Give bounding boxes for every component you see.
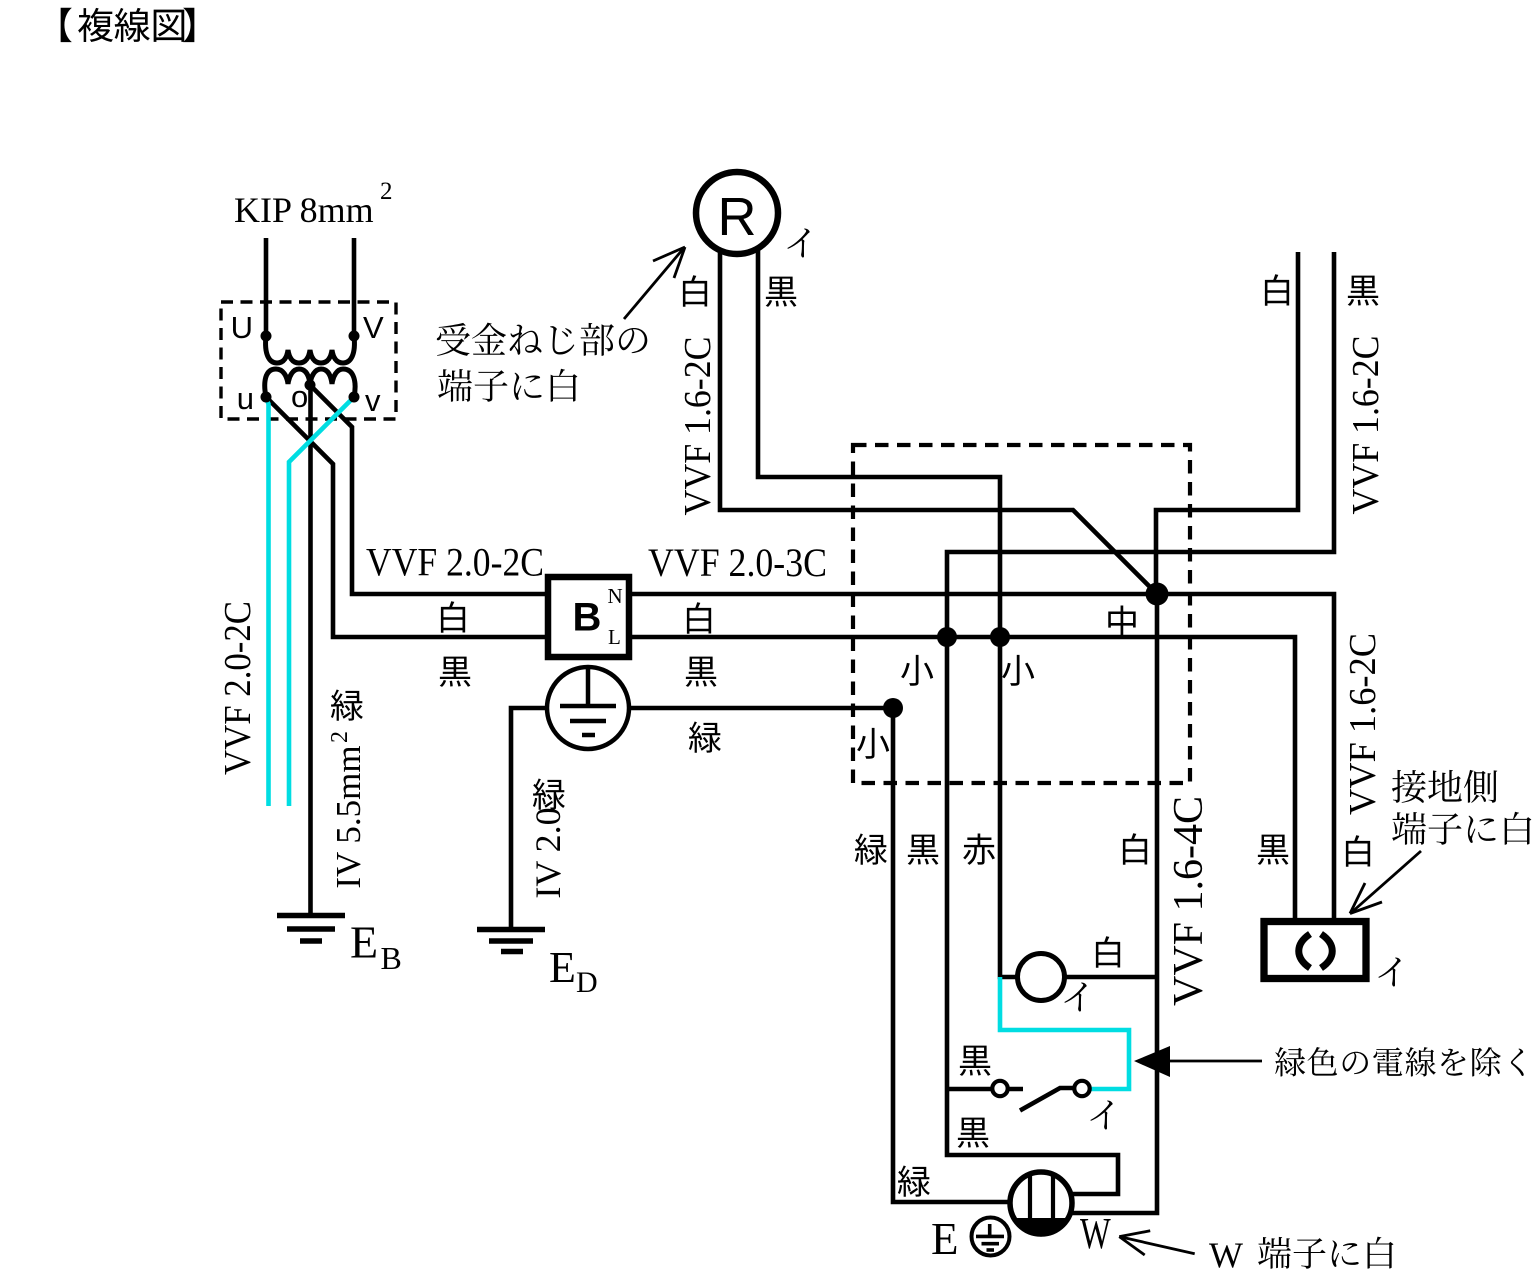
color label 緑 (green bus)	[689, 721, 721, 752]
lamp R circle	[696, 172, 778, 254]
svg-text:D: D	[576, 966, 598, 999]
svg-text:VVF 2.0-2C: VVF 2.0-2C	[217, 601, 259, 775]
svg-text:E: E	[549, 943, 576, 992]
wire white from o (diagonal) down to breaker N bus	[310, 385, 548, 594]
transformer primary terminal U	[261, 331, 272, 342]
wire black bus from B to rosette drop	[629, 637, 1295, 919]
wire white from lamp R to junction (中)	[720, 250, 1157, 594]
svg-text:V: V	[363, 310, 384, 345]
color label 緑 (receptacle)	[898, 1165, 930, 1196]
junction box (dashed)	[853, 445, 1190, 783]
svg-text:IV 2.0: IV 2.0	[528, 807, 568, 898]
color label 白 (right of B)	[687, 602, 711, 633]
ceiling rosette イ box	[1264, 922, 1366, 979]
junction node 中 (neutral)	[1146, 583, 1169, 606]
transformer secondary center tap o	[305, 380, 316, 391]
color label 緑 (below earth circle)	[533, 778, 565, 809]
junction node 小 on green wire	[883, 698, 903, 718]
color label 白 (top right)	[1265, 274, 1289, 305]
color label 白 (drop)	[1123, 833, 1147, 864]
node label 小 (right)	[1002, 655, 1034, 686]
svg-text:2: 2	[327, 731, 353, 743]
note arrow (solid) pointing at cyan wire	[1134, 1046, 1170, 1077]
color label 白 (lamp R)	[683, 275, 707, 306]
transformer secondary terminal u	[261, 392, 272, 403]
lamp イ circle	[1018, 954, 1065, 1001]
color label 黒 (right of B)	[686, 657, 717, 687]
circuit label イ (lamp R)	[787, 228, 809, 257]
svg-text:E: E	[350, 917, 378, 968]
wire black from o straight down to ground EB	[308, 385, 313, 916]
svg-text:VVF 1.6-2C: VVF 1.6-2C	[1345, 336, 1387, 515]
color label 緑 (drop)	[855, 833, 887, 864]
svg-text:2: 2	[380, 178, 393, 205]
title 複線図	[78, 8, 113, 42]
ceiling rosette () symbol	[1299, 934, 1310, 968]
node label 小 (green)	[857, 728, 889, 759]
wire black from top right cable to switch feeder	[947, 252, 1334, 1194]
note 接地側端子に白	[1392, 770, 1426, 803]
svg-text:N: N	[608, 584, 623, 608]
svg-text:VVF 1.6-4C: VVF 1.6-4C	[1166, 796, 1212, 1006]
note arrow to rosette white terminal	[1352, 851, 1421, 912]
wire cyan switched leg from lamp イ to switch	[1000, 977, 1129, 1089]
color label 赤 (drop)	[963, 833, 995, 864]
node label 中	[1108, 605, 1135, 636]
junction node 小 on black bus (switch feeder)	[937, 627, 957, 647]
wire KIP primary right to V	[352, 238, 357, 336]
svg-text:L: L	[608, 625, 621, 649]
color label 緑 (IV5.5 earth wire)	[331, 689, 363, 720]
svg-text:VVF 2.0-3C: VVF 2.0-3C	[648, 540, 827, 585]
svg-text:IV 5.5mm: IV 5.5mm	[329, 745, 368, 888]
wire white lamp イ to white drop	[1065, 975, 1158, 980]
transformer primary terminal V	[349, 331, 360, 342]
circuit label イ (rosette)	[1378, 957, 1400, 986]
svg-text:R: R	[718, 187, 757, 247]
wire black feeder into switch	[947, 1087, 992, 1092]
wire green drop to receptacle earth	[893, 708, 1011, 1202]
wire green from earth circle to junction	[629, 706, 893, 711]
wire cyan unused from v (diagonal)	[289, 397, 354, 806]
wire KIP primary left to U	[264, 238, 269, 336]
breaker B box	[548, 577, 629, 657]
receptacle circle	[1010, 1172, 1072, 1234]
wire black from lamp R down through junction to lamp イ	[758, 248, 1018, 977]
color label 黒 (top right)	[1348, 276, 1379, 306]
switch イ lever	[1020, 1088, 1073, 1111]
wire green from earth circle down to ground ED	[511, 708, 547, 929]
transformer secondary terminal v	[349, 392, 360, 403]
svg-text:W: W	[1080, 1210, 1111, 1258]
circuit label イ (lamp イ)	[1064, 982, 1086, 1011]
color label 白 (rosette)	[1346, 835, 1370, 866]
svg-text:E: E	[931, 1214, 959, 1264]
wire white bus from B to rosette drop	[629, 594, 1334, 919]
svg-text:VVF 1.6-2C: VVF 1.6-2C	[677, 337, 719, 516]
wire black from u (diagonal) down to breaker L bus	[266, 397, 548, 637]
transformer T enclosure (dashed box)	[221, 302, 396, 419]
color label 黒 (left of B)	[440, 657, 471, 687]
switch イ left terminal	[992, 1081, 1007, 1096]
circuit label イ (switch)	[1090, 1100, 1112, 1129]
svg-text:o: o	[291, 379, 308, 414]
color label 黒 (rosette)	[1258, 835, 1289, 865]
wire cyan unused from u	[266, 398, 269, 806]
svg-text:B: B	[381, 940, 402, 976]
svg-text:u: u	[237, 381, 254, 416]
svg-text:VVF 2.0-2C: VVF 2.0-2C	[366, 540, 544, 585]
junction node 小 on black bus (lamp feeder)	[990, 627, 1010, 647]
wire white from top right cable to junction (中)	[1156, 252, 1298, 594]
svg-text:v: v	[365, 383, 381, 418]
color label 黒 (lamp R)	[766, 277, 797, 307]
switch イ contact stub	[1009, 1087, 1023, 1092]
node label 小 (left)	[901, 655, 933, 686]
ground symbol ED	[477, 927, 545, 933]
receptacle blade slots	[1028, 1175, 1032, 1222]
switch イ right terminal	[1074, 1081, 1089, 1096]
note arrow to W terminal	[1119, 1237, 1194, 1254]
svg-text:U: U	[231, 310, 253, 345]
color label 黒 (above switch)	[960, 1046, 991, 1076]
wire white from 中 down to receptacle W terminal	[1070, 594, 1157, 1213]
svg-text:B: B	[573, 596, 602, 640]
svg-text:VVF 1.6-2C: VVF 1.6-2C	[1342, 633, 1384, 815]
receptacle filled bottom segment	[1013, 1218, 1070, 1237]
note 受金ねじ部の端子に白	[437, 323, 470, 356]
ground symbol EB	[277, 913, 345, 919]
svg-text:W: W	[1209, 1235, 1243, 1275]
color label 白 (left of B)	[441, 601, 465, 632]
color label 黒 (drop)	[908, 835, 939, 865]
note 緑色の電線を除く	[1275, 1047, 1305, 1076]
svg-text:KIP 8mm: KIP 8mm	[234, 190, 374, 230]
transformer secondary winding	[265, 369, 355, 397]
note arrow to lamp R	[624, 249, 683, 319]
color label 白 (lamp イ)	[1096, 936, 1120, 967]
transformer primary winding	[266, 336, 355, 363]
appliance earth terminal circle	[547, 667, 629, 749]
color label 黒 (below switch)	[958, 1118, 989, 1148]
